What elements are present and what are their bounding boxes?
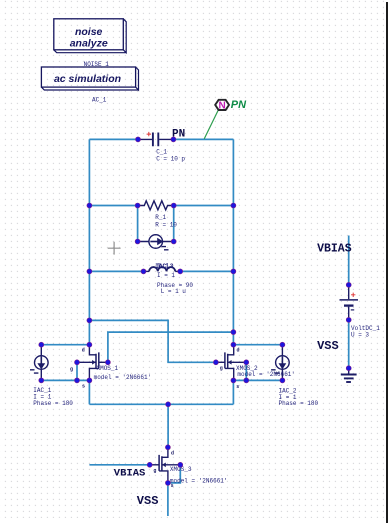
junction: R_1 right	[171, 203, 176, 208]
svg-text:N: N	[218, 101, 225, 112]
svg-text:model = '2N6661': model = '2N6661'	[237, 371, 295, 378]
transistor XMOS_2 (mirrored)	[216, 346, 295, 390]
svg-text:noise: noise	[75, 26, 103, 38]
svg-text:XMOS_1: XMOS_1	[97, 365, 119, 372]
wire: drain2 to IAC_2 top	[233, 344, 282, 346]
wire: top row left (to C_1)	[89, 138, 138, 140]
junction: ground node	[346, 366, 351, 371]
wire: IAC_1 top to drain1	[41, 344, 89, 346]
junction: VoltDC_1 bottom	[346, 317, 351, 322]
junction: IAC_1 top	[39, 342, 44, 347]
noise probe PN	[204, 99, 247, 139]
junction: VoltDC_1 top	[346, 282, 351, 287]
wire: source row right (source2 to IAC_2 bottom)	[233, 379, 282, 381]
svg-text:ac simulation: ac simulation	[54, 73, 121, 85]
wire: gate1 stub down	[76, 362, 78, 380]
svg-text:Phase = 180: Phase = 180	[279, 400, 319, 407]
junction: XMOS_2 bulk	[213, 360, 218, 365]
junction: XMOS_1 bulk	[105, 360, 110, 365]
wire: drain1 to bulk2 (cross-couple A)	[89, 320, 215, 362]
wire: XMOS_3 drain up to bottom rail	[167, 404, 169, 447]
svg-text:g: g	[153, 468, 156, 474]
junction: XMOS_3 source	[165, 480, 170, 485]
junction: I1 left	[135, 239, 140, 244]
wire: VBIAS rail top right	[348, 236, 350, 285]
junction: gate1 at source row	[75, 378, 80, 383]
wire: inductor row left	[89, 270, 143, 272]
svg-text:VBIAS: VBIAS	[114, 467, 146, 479]
current source IAC_2	[271, 345, 318, 408]
junction: R_1 left	[135, 203, 140, 208]
junction: IAC_2 bottom	[280, 378, 285, 383]
junction: drain1 branch	[87, 318, 92, 323]
svg-text:L = 1 u: L = 1 u	[161, 288, 187, 295]
junction: bottom rail to XMOS_3	[166, 402, 171, 407]
wire: bottom rail up to source2	[232, 380, 234, 404]
svg-text:g: g	[70, 367, 73, 373]
wire: resistor row right	[174, 205, 234, 207]
svg-text:C_1: C_1	[156, 149, 167, 156]
current source IAC_1	[30, 345, 73, 407]
wire: left vertical main	[88, 139, 90, 344]
svg-text:U = 3: U = 3	[351, 332, 369, 339]
junction: XMOS_2 gate	[244, 360, 249, 365]
svg-text:VSS: VSS	[317, 339, 339, 353]
svg-text:g: g	[220, 366, 223, 372]
junction: L_1 left	[141, 269, 146, 274]
svg-text:PN: PN	[231, 99, 247, 111]
junction: right rail at resistor row	[231, 203, 236, 208]
origin cross	[108, 242, 121, 255]
wire: subloop left vertical	[137, 206, 139, 242]
capacitor C_1	[138, 132, 185, 163]
svg-text:R = 10: R = 10	[155, 222, 177, 229]
junction: IAC_2 top	[280, 342, 285, 347]
wire: subloop right vertical	[173, 206, 175, 242]
svg-text:I = 1: I = 1	[157, 272, 175, 279]
junction: I1 right	[171, 239, 176, 244]
svg-text:s: s	[82, 384, 85, 390]
junction: C_1 right	[171, 137, 176, 142]
svg-text:R_1: R_1	[155, 214, 166, 221]
wire: right vertical main	[232, 139, 234, 344]
wire: gate2 stub down	[245, 362, 247, 380]
svg-text:s: s	[236, 384, 239, 390]
window border right edge	[386, 2, 388, 523]
junction: XMOS_2 source	[231, 378, 236, 383]
wire: top row right (C_1 to corner)	[173, 138, 233, 140]
junction: left rail at resistor row	[87, 203, 92, 208]
transistor XMOS_3 (mirrored)	[150, 449, 228, 490]
junction: IAC_1 bottom	[39, 378, 44, 383]
wire: source3 down to VSS	[167, 483, 169, 516]
wire: resistor row left	[89, 205, 137, 207]
wire: VoltDC_1 bottom to ground	[348, 320, 350, 368]
svg-text:L_1: L_1	[158, 262, 169, 269]
simulation box NOISE_1 (noise analyze)	[54, 19, 126, 53]
junction: L_1 right	[178, 269, 183, 274]
wire: VBIAS to gate3	[89, 464, 149, 466]
transistor XMOS_1	[70, 346, 151, 390]
wire: gate3 stub to source3	[168, 465, 180, 483]
svg-text:Phase = 180: Phase = 180	[33, 400, 73, 407]
inductor L_1 with overlapped IAC labels	[144, 262, 194, 295]
junction: right rail wire B	[231, 330, 236, 335]
svg-text:d: d	[82, 348, 85, 354]
voltage source VoltDC_1	[340, 285, 381, 339]
junction: XMOS_1 gate	[75, 360, 80, 365]
svg-text:VSS: VSS	[137, 494, 159, 508]
svg-text:d: d	[171, 451, 174, 457]
junction: XMOS_3 gate right	[178, 462, 183, 467]
wire: inductor row right	[180, 270, 233, 272]
wire: bulk1 to right rail (cross-couple B)	[108, 332, 233, 362]
junction: XMOS_1 source	[87, 378, 92, 383]
junction: XMOS_1 drain	[87, 342, 92, 347]
svg-text:model = '2N6661': model = '2N6661'	[94, 374, 152, 381]
wire: source row left (IAC_1 bottom to source1)	[41, 379, 89, 381]
svg-text:AC_1: AC_1	[92, 97, 107, 104]
simulation box AC_1 (ac simulation)	[41, 67, 138, 90]
junction: gate2 at source row	[244, 378, 249, 383]
wire: source1 down to bottom rail	[88, 380, 90, 404]
svg-text:d: d	[237, 348, 240, 354]
junction: XMOS_2 drain	[231, 342, 236, 347]
junction: XMOS_3 gate left	[147, 462, 152, 467]
resistor R_1	[138, 201, 178, 229]
svg-text:model = '2N6661': model = '2N6661'	[170, 478, 228, 485]
svg-text:C = 10 p: C = 10 p	[156, 156, 185, 163]
junction: right rail at inductor row	[231, 269, 236, 274]
wire: bottom rail	[89, 403, 233, 405]
junction: C_1 left	[136, 137, 141, 142]
junction: left rail at inductor row	[87, 269, 92, 274]
current source I1 (parallel with R_1)	[138, 235, 174, 250]
junction: XMOS_3 drain	[165, 445, 170, 450]
ground	[341, 370, 357, 383]
svg-text:VBIAS: VBIAS	[317, 243, 352, 256]
svg-text:analyze: analyze	[70, 37, 108, 49]
